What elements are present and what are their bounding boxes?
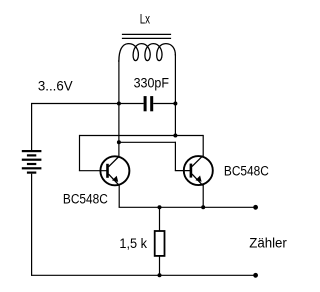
transistor Q2 BC548C xyxy=(184,156,213,186)
svg-text:1,5 k: 1,5 k xyxy=(119,236,147,252)
svg-text:BC548C: BC548C xyxy=(224,162,269,178)
svg-text:BC548C: BC548C xyxy=(63,191,108,207)
transistor Q1 BC548C xyxy=(100,156,129,186)
wire: supply corner down to battery top xyxy=(31,103,33,150)
wire: ground rail xyxy=(32,274,256,276)
node: coil/cap/supply junction xyxy=(117,102,121,106)
wire: battery bottom down to ground rail xyxy=(31,174,33,276)
wire: wire B corner down xyxy=(174,142,176,171)
wire: T2 emitter down to emitter rail xyxy=(202,185,204,208)
wire: resistor top lead xyxy=(159,207,161,231)
node: resistor top junction xyxy=(158,205,162,209)
node: T2 emitter junction xyxy=(201,205,205,209)
wire: T2 base horizontal xyxy=(175,170,191,172)
wire: wire A right corner down to T2 collector xyxy=(202,135,204,156)
svg-text:330pF: 330pF xyxy=(134,75,169,91)
svg-text:Lx: Lx xyxy=(140,11,150,27)
terminal: Zaehler upper xyxy=(253,205,258,210)
node: cap/coil right junction xyxy=(173,102,177,106)
capacitor 330pF plates xyxy=(144,96,147,111)
inductor Lx coil xyxy=(119,44,176,62)
svg-text:Zähler: Zähler xyxy=(249,235,287,250)
wire: resistor bottom lead xyxy=(159,256,161,275)
battery B1 xyxy=(22,150,42,174)
wire: coil right lead down to wire A xyxy=(174,54,176,136)
svg-text:3...6V: 3...6V xyxy=(38,78,74,93)
inductor Lx core xyxy=(122,34,171,38)
node: resistor bottom junction xyxy=(158,273,162,277)
node: wire B junction on collector column xyxy=(117,140,121,144)
wire: supply rail battery to capacitor xyxy=(32,103,144,105)
wire A: cross-coupling T1 base / tank right / T2 collector xyxy=(80,135,204,137)
wire: T1 emitter down to emitter rail xyxy=(118,185,120,207)
wire: capacitor to coil right lead xyxy=(153,103,175,105)
resistor 1,5k xyxy=(155,231,165,256)
wire: coil left lead down to T1 collector xyxy=(118,60,120,156)
wire: emitter rail xyxy=(119,206,256,208)
terminal: Zaehler lower xyxy=(253,273,258,278)
wire: T1 base horizontal xyxy=(79,170,108,172)
node: tank right on wire A xyxy=(173,134,177,138)
wire: wire A left corner down to T1 base xyxy=(79,135,81,171)
wire B: T1 collector to T2 base xyxy=(119,141,175,143)
